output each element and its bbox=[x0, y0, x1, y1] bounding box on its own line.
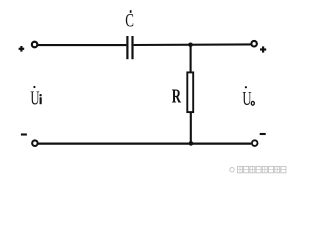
svg-text:C: C bbox=[125, 9, 134, 31]
svg-text:R: R bbox=[172, 85, 182, 108]
svg-text:U: U bbox=[242, 87, 251, 110]
svg-text:U: U bbox=[30, 86, 39, 109]
